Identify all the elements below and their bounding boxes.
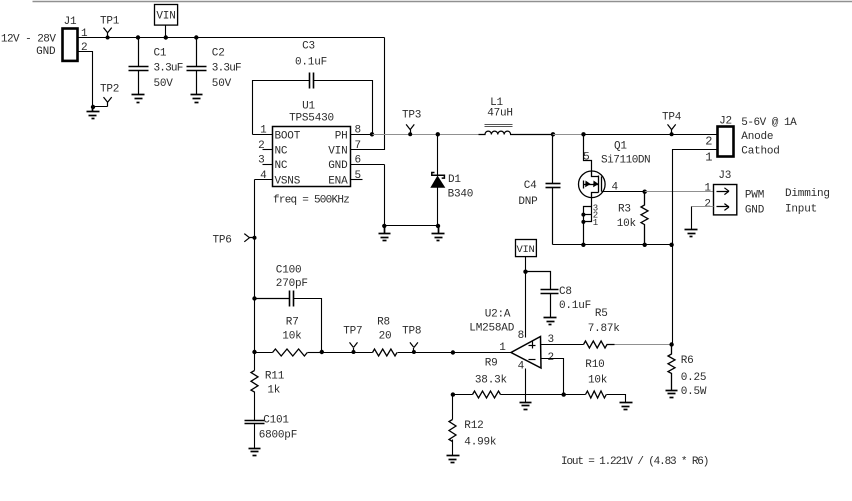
svg-text:TP6: TP6 (213, 234, 232, 246)
svg-text:Iout = 1.221V / (4.83 * R6): Iout = 1.221V / (4.83 * R6) (561, 456, 708, 468)
svg-text:0.5W: 0.5W (681, 386, 707, 398)
svg-text:TP2: TP2 (100, 84, 119, 96)
svg-text:BOOT: BOOT (275, 130, 301, 142)
Q1 gate wire pin 4 (602, 191, 645, 193)
svg-text:50V: 50V (212, 78, 232, 90)
ground (C1) (132, 95, 145, 103)
ground (C101) (249, 449, 261, 456)
svg-text:C2: C2 (212, 48, 225, 60)
svg-text:270pF: 270pF (276, 278, 308, 290)
svg-text:1: 1 (704, 182, 711, 194)
wire VIN to U2 pin8 (525, 272, 527, 338)
resistor R3 (641, 192, 648, 245)
svg-text:1k: 1k (267, 384, 280, 396)
wire switch node (gray) (553, 134, 584, 136)
wire VSNS column (254, 180, 256, 353)
svg-text:Q1: Q1 (614, 140, 627, 152)
ground (R6) (666, 391, 678, 398)
svg-text:PWM: PWM (745, 189, 764, 201)
svg-text:LM258AD: LM258AD (469, 323, 514, 335)
svg-text:R11: R11 (265, 370, 285, 382)
page border top (33, 1, 852, 3)
svg-text:4.99k: 4.99k (464, 436, 497, 448)
wire gate to J3 (gray) (645, 191, 714, 193)
svg-text:J1: J1 (64, 16, 77, 28)
svg-text:D1: D1 (448, 174, 461, 186)
resistor R11 (254, 353, 256, 371)
svg-text:ENA: ENA (328, 176, 348, 188)
node J1 pin2 gnd (91, 105, 95, 109)
wire PH net (gray) (373, 134, 479, 136)
svg-text:B340: B340 (448, 188, 474, 200)
svg-text:C4: C4 (524, 180, 537, 192)
svg-text:2: 2 (705, 135, 712, 149)
svg-text:2: 2 (81, 42, 87, 54)
wire R5 to R6 node (gray) (615, 344, 672, 346)
wire J3 pin2 to ground (692, 206, 714, 208)
capacitor C101 (245, 421, 265, 424)
resistor R6 (668, 345, 675, 391)
diode D1 B340 (436, 132, 440, 136)
svg-text:VIN: VIN (328, 145, 347, 157)
svg-text:47uH: 47uH (487, 108, 513, 120)
svg-text:50V: 50V (154, 78, 174, 90)
svg-text:TPS5430: TPS5430 (289, 113, 334, 125)
svg-text:10k: 10k (617, 218, 637, 230)
resistor R12 (452, 395, 454, 420)
ground (D1) (432, 226, 445, 241)
svg-text:NC: NC (275, 160, 288, 172)
wire U2 pin4 to ground (525, 369, 527, 403)
svg-text:C8: C8 (559, 286, 572, 298)
svg-text:TP1: TP1 (100, 15, 120, 27)
ground (U1 GND) (379, 226, 391, 241)
svg-text:3.3uF: 3.3uF (154, 62, 183, 74)
power symbol VIN (155, 5, 178, 26)
ground (J3) (685, 230, 698, 237)
svg-text:TP7: TP7 (343, 325, 362, 337)
svg-text:C3: C3 (302, 41, 315, 53)
svg-text:C100: C100 (276, 264, 302, 276)
svg-text:TP4: TP4 (662, 111, 682, 123)
capacitor C2 (194, 35, 198, 39)
wire VIN down to U1 pin7 (351, 38, 385, 150)
svg-text:4: 4 (260, 170, 267, 182)
wire R8 to opamp (398, 352, 453, 354)
capacitor C100 (252, 296, 256, 300)
wire U2 pin2 feedback (541, 359, 564, 395)
capacitor C8 (526, 272, 559, 318)
svg-text:10k: 10k (588, 374, 608, 386)
svg-text:2: 2 (548, 352, 554, 364)
connector J3 (714, 185, 737, 215)
svg-text:Si7110DN: Si7110DN (601, 155, 650, 167)
svg-text:38.3k: 38.3k (475, 374, 508, 386)
wire Q1 source bottom rail (553, 244, 673, 246)
node Q1 drain (581, 132, 585, 136)
svg-text:R8: R8 (377, 317, 390, 329)
testpoint TP4 (668, 124, 676, 134)
svg-text:C101: C101 (263, 414, 289, 426)
svg-text:R5: R5 (595, 308, 608, 320)
Q1 source pins 3,2,1 (584, 198, 592, 245)
wire LED+ net (584, 134, 718, 136)
svg-text:4: 4 (518, 361, 525, 373)
svg-text:1: 1 (705, 151, 712, 165)
wire U2 output (453, 352, 511, 354)
svg-text:VSNS: VSNS (275, 176, 301, 188)
svg-text:5-6V @ 1A: 5-6V @ 1A (741, 117, 797, 129)
svg-text:R6: R6 (681, 355, 694, 367)
svg-text:12V - 28V: 12V - 28V (1, 33, 56, 45)
svg-text:R12: R12 (464, 420, 483, 432)
ground (C8) (544, 318, 557, 325)
svg-text:R10: R10 (585, 359, 604, 371)
svg-text:TP8: TP8 (402, 325, 421, 337)
svg-text:6800pF: 6800pF (259, 429, 297, 441)
U1 pin names (275, 130, 349, 187)
svg-text:0.25: 0.25 (681, 372, 707, 384)
svg-text:VIN: VIN (156, 11, 175, 23)
connector J2 (718, 127, 734, 157)
svg-text:3.3uF: 3.3uF (212, 62, 241, 74)
wire J1 pin2 to ground (78, 52, 108, 107)
svg-text:1: 1 (81, 28, 88, 40)
svg-text:freq = 500KHz: freq = 500KHz (273, 194, 349, 206)
ground (TP2) (87, 107, 100, 119)
node PH (370, 132, 374, 136)
svg-text:0.1uF: 0.1uF (295, 56, 327, 68)
svg-text:TP3: TP3 (402, 110, 421, 122)
svg-text:0.1uF: 0.1uF (559, 300, 591, 312)
testpoint TP8 (410, 342, 418, 352)
svg-text:GND: GND (36, 46, 56, 58)
svg-text:U1: U1 (302, 100, 315, 112)
U1 pin stubs (253, 135, 385, 180)
wire J2 pin1 to R6 column (673, 150, 718, 345)
svg-text:1: 1 (593, 218, 598, 228)
svg-text:R7: R7 (286, 317, 299, 329)
svg-text:J2: J2 (719, 116, 732, 128)
wire VIN net top (78, 37, 385, 39)
testpoint TP2 (104, 97, 112, 106)
svg-text:C1: C1 (154, 48, 167, 60)
connector J1 (63, 29, 78, 61)
resistor R7 (252, 350, 256, 354)
testpoint TP7 (350, 342, 358, 352)
ground (R12) (447, 456, 460, 463)
svg-text:2: 2 (704, 198, 710, 210)
svg-text:NC: NC (275, 145, 288, 157)
svg-text:5: 5 (355, 170, 361, 182)
capacitor C1 (136, 35, 140, 39)
svg-text:VIN: VIN (516, 244, 534, 256)
svg-text:DNP: DNP (518, 196, 538, 208)
svg-text:Cathod: Cathod (741, 145, 779, 157)
testpoint TP3 (406, 124, 414, 134)
ground (C2) (191, 95, 203, 103)
wire U1 GND to ground (385, 165, 439, 226)
ground (R10) (620, 403, 633, 410)
svg-text:J3: J3 (718, 170, 731, 182)
testpoint TP6 (244, 234, 254, 242)
power symbol VIN (op-amp) (516, 240, 537, 257)
svg-text:U2:A: U2:A (485, 309, 511, 321)
svg-text:Anode: Anode (741, 131, 773, 143)
testpoint TP1 (104, 28, 112, 38)
node L1 out / C4 (551, 132, 555, 136)
svg-text:8: 8 (518, 330, 524, 342)
svg-text:20: 20 (379, 330, 392, 342)
svg-text:R3: R3 (618, 204, 631, 216)
svg-text:R9: R9 (485, 358, 498, 370)
svg-text:GND: GND (328, 160, 348, 172)
wire R7 to R8 (322, 352, 373, 354)
svg-text:10k: 10k (282, 330, 302, 342)
svg-text:4: 4 (612, 182, 619, 194)
svg-text:7: 7 (355, 140, 361, 152)
svg-text:PH: PH (335, 130, 348, 142)
op-amp U1 TPS5430 (273, 127, 351, 187)
resistor R8 (373, 349, 398, 356)
svg-text:7.87k: 7.87k (588, 323, 621, 335)
svg-text:5: 5 (583, 152, 589, 164)
svg-text:Input: Input (785, 204, 817, 216)
svg-text:GND: GND (745, 205, 765, 217)
capacitor C4 (546, 135, 561, 245)
svg-text:Dimming: Dimming (785, 188, 830, 200)
ground (U2 pin4) (520, 403, 532, 410)
